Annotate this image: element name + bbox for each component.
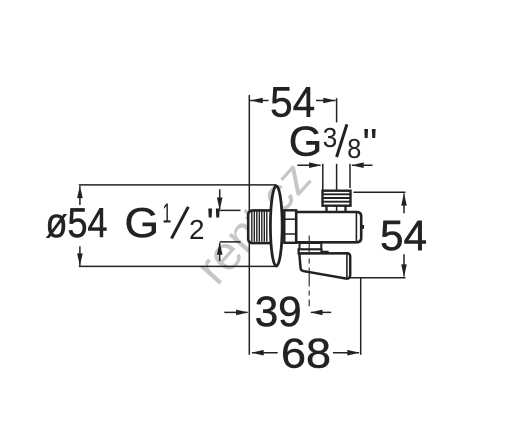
dia54 top extension line (79, 184, 277, 186)
top thread G3/8 (323, 191, 351, 206)
svg-text:3: 3 (323, 122, 338, 153)
svg-text:68: 68 (281, 330, 331, 377)
68 right extension line (360, 278, 362, 355)
G3/8 dim shaft right (352, 164, 373, 166)
39 arrow right-pointing-left (310, 310, 323, 316)
svg-text:": " (207, 199, 222, 246)
G3/8 right tick (349, 164, 351, 188)
end cap line (355, 213, 357, 241)
G1/2 dim shaft top (219, 189, 221, 209)
dia54 dim shaft top (79, 186, 81, 205)
39 dim shaft left (224, 311, 247, 313)
thread lines (252, 212, 267, 242)
bonnet block (300, 243, 322, 249)
G1/2 bottom extension line (220, 241, 241, 243)
neck (327, 206, 346, 213)
outlet center line (336, 164, 338, 217)
dim text G3/8" (289, 118, 378, 167)
rosette ellipse (270, 186, 282, 266)
handle inner line (346, 255, 348, 278)
dia54 arrow top (77, 186, 83, 199)
dia54 bottom extension line (79, 265, 277, 267)
notch (360, 225, 364, 229)
step plate (299, 249, 328, 253)
right 54 dim shaft top (403, 194, 405, 214)
G1/2 top extension line (220, 209, 241, 211)
68 dim shaft left (252, 352, 278, 354)
svg-text:ø54: ø54 (46, 199, 108, 246)
G1/2 arrow up (217, 242, 223, 255)
top 54 right extension line (336, 98, 338, 122)
68 arrow right (347, 350, 360, 356)
G3/8 arrow right (351, 162, 364, 168)
G1/2 arrow down (217, 198, 223, 211)
dia54 arrow bottom (77, 253, 83, 266)
svg-text:54: 54 (380, 212, 427, 260)
svg-text:G: G (289, 118, 323, 165)
68 arrow left (251, 350, 264, 356)
right 54 arrow down (401, 264, 407, 277)
39 arrow left-pointing-right (236, 310, 249, 316)
watermark rent.cz (186, 152, 322, 295)
39 dim shaft right (311, 311, 331, 313)
hex nut (284, 210, 296, 243)
68 dim shaft right (333, 352, 359, 354)
stem center line (308, 236, 310, 307)
G3/8 dim shaft left (297, 164, 320, 166)
wall extension line (248, 95, 250, 355)
threaded pipe G1/2 (248, 210, 271, 243)
right 54 arrow up (401, 193, 407, 206)
svg-text:2: 2 (189, 214, 205, 245)
top 54 arrow right (323, 98, 336, 104)
G1/2 dim shaft bottom (219, 243, 221, 261)
G3/8 left tick (322, 164, 324, 190)
svg-text:G: G (125, 199, 160, 246)
dim text dia54 G1/2" (46, 197, 222, 246)
right 54 dim shaft bottom (403, 254, 405, 276)
handle (299, 253, 350, 278)
svg-text:1: 1 (162, 197, 171, 228)
top 54 dim shaft left (250, 100, 268, 102)
svg-text:": " (363, 120, 378, 167)
G3/8 arrow left (309, 162, 322, 168)
top 54 arrow left (250, 98, 263, 104)
right 54 bottom extension line (351, 277, 406, 279)
right 54 top extension line (354, 191, 406, 193)
valve body (296, 212, 364, 242)
top 54 dim shaft right (316, 100, 336, 102)
dia54 dim shaft bottom (79, 246, 81, 265)
svg-text:8: 8 (347, 133, 361, 164)
